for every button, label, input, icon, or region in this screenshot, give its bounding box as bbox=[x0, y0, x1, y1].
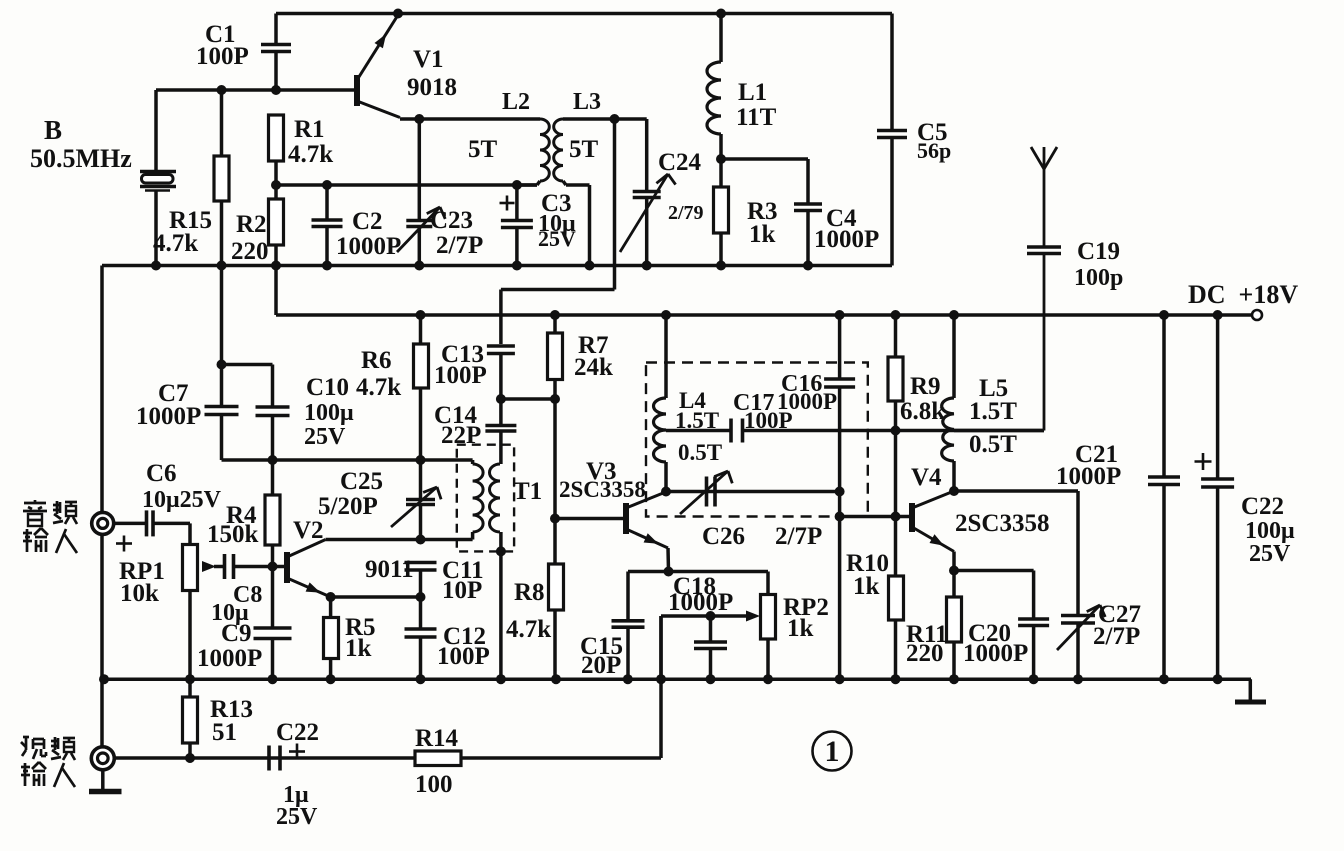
svg-text:2/7P: 2/7P bbox=[1093, 623, 1140, 650]
antenna bbox=[1043, 147, 1046, 247]
wire DC +18V rail bbox=[274, 266, 278, 316]
wire bias node y185 bbox=[276, 183, 537, 187]
svg-text:25V: 25V bbox=[1249, 541, 1291, 567]
wire video signal bbox=[113, 756, 415, 760]
wire V1 emitter bbox=[400, 117, 540, 121]
capacitor C25 bbox=[419, 460, 423, 500]
node V4 collector bbox=[949, 486, 959, 496]
wire emitter bus y571 bbox=[628, 570, 768, 574]
wire emitter to C20 bbox=[954, 569, 1034, 573]
inductor L2 bbox=[540, 119, 549, 181]
svg-text:C10: C10 bbox=[306, 374, 349, 401]
wire wiper to C8 bbox=[214, 565, 225, 569]
transformer T1 box bbox=[457, 445, 514, 552]
svg-text:2SC3358: 2SC3358 bbox=[955, 510, 1049, 537]
svg-text:1000P: 1000P bbox=[668, 589, 733, 616]
connector audio input bbox=[92, 512, 114, 534]
capacitor C5 bbox=[890, 14, 894, 131]
transistor V2 bbox=[284, 552, 290, 583]
transformer T1 primary bbox=[471, 460, 475, 464]
node C18 top bbox=[706, 611, 716, 621]
node top-rail junctions bbox=[393, 9, 403, 19]
svg-text:220: 220 bbox=[231, 238, 269, 265]
svg-text:T1: T1 bbox=[513, 478, 542, 505]
capacitor C18 bbox=[709, 616, 713, 642]
node V3 collector bbox=[661, 487, 671, 497]
capacitor C3 bbox=[515, 185, 519, 221]
wire R3-C4 bbox=[721, 157, 808, 161]
svg-text:R1: R1 bbox=[294, 116, 325, 143]
capacitor C26 bbox=[666, 490, 840, 494]
capacitor C27 bbox=[1061, 614, 1095, 618]
wire ground bus upper bbox=[102, 264, 892, 268]
capacitor C11 bbox=[405, 561, 437, 565]
svg-text:25V: 25V bbox=[304, 424, 346, 450]
ground main bbox=[1249, 679, 1253, 700]
resistor R1 bbox=[269, 115, 284, 161]
resistor R14 bbox=[415, 751, 461, 766]
wire C18 bus y616 bbox=[661, 614, 746, 618]
node L1 bottom bbox=[716, 154, 726, 164]
svg-text:R9: R9 bbox=[910, 373, 941, 400]
node V4 emitter junction bbox=[949, 566, 959, 576]
capacitor C13 bbox=[487, 344, 515, 348]
wire top rail bbox=[276, 12, 892, 16]
capacitor C12 bbox=[419, 597, 423, 629]
svg-text:C26: C26 bbox=[702, 523, 745, 550]
resistor R13 bbox=[188, 679, 192, 697]
svg-text:L2: L2 bbox=[502, 89, 530, 115]
node y185 junctions bbox=[322, 180, 332, 190]
node V3 emitter junction bbox=[664, 567, 674, 577]
svg-text:V1: V1 bbox=[413, 46, 444, 73]
wire supply node y460 bbox=[222, 458, 473, 462]
svg-text:C25: C25 bbox=[340, 468, 383, 495]
svg-text:R8: R8 bbox=[514, 579, 545, 606]
node T1 secondary bottom bbox=[496, 546, 506, 556]
svg-text:10μ25V: 10μ25V bbox=[142, 487, 222, 513]
svg-text:100P: 100P bbox=[196, 43, 249, 70]
wire V3 emitter drop bbox=[666, 548, 670, 572]
svg-text:4.7k: 4.7k bbox=[288, 141, 333, 168]
svg-text:L1: L1 bbox=[738, 79, 767, 106]
svg-text:100: 100 bbox=[415, 771, 453, 798]
svg-text:56p: 56p bbox=[917, 138, 951, 163]
svg-text:2SC3358: 2SC3358 bbox=[559, 477, 646, 502]
capacitor C8 bbox=[223, 554, 227, 579]
inductor L1 bbox=[719, 14, 723, 63]
capacitor C20 bbox=[1018, 617, 1049, 621]
crystal B bbox=[154, 90, 158, 170]
svg-text:B: B bbox=[44, 115, 62, 145]
svg-text:1.5T: 1.5T bbox=[969, 398, 1017, 425]
svg-text:2/7P: 2/7P bbox=[436, 232, 483, 259]
svg-text:4.7k: 4.7k bbox=[153, 230, 198, 257]
svg-text:20P: 20P bbox=[581, 652, 621, 679]
svg-text:1000P: 1000P bbox=[136, 403, 201, 430]
capacitor C17 bbox=[729, 419, 733, 443]
svg-text:220: 220 bbox=[906, 640, 944, 667]
wire V2 collector bbox=[326, 538, 473, 542]
wire V4 base bbox=[840, 515, 912, 519]
transistor V4 bbox=[909, 503, 915, 532]
node lower-bus junctions bbox=[99, 674, 109, 684]
svg-text:1k: 1k bbox=[853, 573, 880, 600]
svg-text:2/7P: 2/7P bbox=[775, 523, 822, 550]
capacitor C1 bbox=[274, 14, 278, 45]
svg-text:1000P: 1000P bbox=[814, 226, 879, 253]
svg-text:C9: C9 bbox=[221, 620, 252, 647]
transistor V1 bbox=[354, 75, 360, 106]
inductor L3 bbox=[554, 119, 563, 181]
capacitor C16 bbox=[838, 315, 842, 379]
node emitter junctions bbox=[414, 114, 424, 124]
svg-text:R2: R2 bbox=[236, 211, 267, 238]
node C16-line junctions bbox=[835, 487, 845, 497]
wire V2 emitter to C11 bbox=[331, 595, 421, 599]
svg-text:V4: V4 bbox=[911, 464, 942, 491]
svg-text:C22: C22 bbox=[276, 719, 319, 746]
resistor R11 bbox=[952, 571, 956, 598]
svg-text:51: 51 bbox=[212, 719, 237, 746]
shield box L4-C26 bbox=[646, 363, 868, 517]
label video input bbox=[23, 736, 29, 739]
svg-text:1k: 1k bbox=[787, 615, 814, 642]
connector video input bbox=[91, 747, 114, 770]
wire ground bus lower bbox=[104, 677, 1251, 681]
capacitor C15 bbox=[626, 572, 630, 621]
svg-text:1000P: 1000P bbox=[963, 640, 1028, 667]
svg-text:1k: 1k bbox=[345, 635, 372, 662]
svg-text:100p: 100p bbox=[1074, 265, 1123, 291]
svg-text:0.5T: 0.5T bbox=[969, 431, 1017, 458]
capacitor C22 filter bbox=[1216, 315, 1220, 479]
node R7 bottom bbox=[550, 394, 560, 404]
capacitor C2 bbox=[325, 185, 329, 220]
wire left ground drop bbox=[100, 266, 104, 514]
node DC-rail junctions bbox=[416, 310, 426, 320]
capacitor C23 bbox=[418, 119, 422, 221]
svg-text:150k: 150k bbox=[207, 521, 259, 548]
svg-text:C23: C23 bbox=[430, 207, 473, 234]
svg-text:C24: C24 bbox=[658, 149, 702, 176]
capacitor C10 bbox=[256, 405, 290, 409]
capacitor C9 bbox=[271, 567, 275, 629]
resistor R9 bbox=[894, 315, 898, 357]
svg-text:DC +18V: DC +18V bbox=[1188, 280, 1298, 309]
capacitor C4 bbox=[806, 159, 810, 204]
transistor V3 bbox=[623, 503, 629, 534]
svg-text:25V: 25V bbox=[538, 226, 576, 251]
svg-text:25V: 25V bbox=[276, 804, 318, 830]
svg-text:9018: 9018 bbox=[407, 74, 457, 101]
wire L4 tap bbox=[666, 429, 731, 433]
svg-text:C19: C19 bbox=[1077, 238, 1120, 265]
svg-text:L3: L3 bbox=[573, 89, 601, 115]
svg-text:1000P: 1000P bbox=[777, 389, 837, 414]
resistor R2 bbox=[269, 199, 284, 245]
wire L3 takeoff jog bbox=[613, 119, 617, 290]
potentiometer RP1 bbox=[188, 523, 192, 544]
resistor R5 bbox=[329, 597, 333, 618]
node C7 top bbox=[217, 360, 227, 370]
wire V4 emitter drop bbox=[952, 552, 956, 571]
label audio input bbox=[24, 502, 46, 505]
wire T1 secondary ground bbox=[499, 551, 503, 679]
svg-text:10P: 10P bbox=[442, 577, 482, 604]
node C13-C14 junction bbox=[496, 394, 506, 404]
svg-text:1: 1 bbox=[825, 735, 840, 768]
capacitor C7 bbox=[220, 365, 224, 407]
potentiometer RP2 bbox=[766, 572, 770, 595]
wire V3 base bbox=[555, 517, 626, 521]
capacitor C19 bbox=[1027, 245, 1061, 249]
wire R7 bottom link bbox=[501, 397, 555, 401]
resistor R6 bbox=[419, 315, 423, 344]
transformer T1 secondary bbox=[499, 431, 503, 464]
node y460 junctions bbox=[268, 455, 278, 465]
resistor R7 bbox=[553, 315, 557, 333]
label circled 1 bbox=[813, 732, 852, 771]
svg-text:100P: 100P bbox=[434, 362, 487, 389]
inductor L5 bbox=[952, 315, 956, 398]
svg-text:100P: 100P bbox=[437, 643, 490, 670]
svg-text:V2: V2 bbox=[293, 517, 324, 544]
ground video bbox=[101, 770, 105, 789]
capacitor C6 bbox=[113, 522, 147, 526]
svg-text:10k: 10k bbox=[120, 580, 159, 607]
svg-text:5T: 5T bbox=[569, 136, 599, 163]
wire V4 collector bbox=[954, 489, 1078, 493]
node collector-wire junction bbox=[416, 535, 426, 545]
wire R7-R8 drop bbox=[553, 399, 557, 564]
node upper-bus junctions bbox=[151, 261, 161, 271]
capacitor C21 bbox=[1162, 315, 1166, 477]
svg-text:4.7k: 4.7k bbox=[506, 616, 551, 643]
svg-text:1k: 1k bbox=[749, 221, 776, 248]
node V2 base junction bbox=[268, 562, 278, 572]
node emitter-wire junctions bbox=[326, 592, 336, 602]
svg-text:C22: C22 bbox=[1241, 493, 1284, 520]
svg-text:0.5T: 0.5T bbox=[678, 440, 722, 465]
wire C7-C10 top link bbox=[222, 363, 273, 367]
resistor R15 bbox=[220, 90, 224, 156]
node tap junctions bbox=[891, 426, 901, 436]
svg-text:C2: C2 bbox=[352, 208, 383, 235]
svg-text:2/79: 2/79 bbox=[668, 202, 704, 224]
node video junctions bbox=[185, 753, 195, 763]
svg-text:50.5MHz: 50.5MHz bbox=[30, 144, 132, 173]
wire below audio connector bbox=[100, 534, 104, 679]
svg-text:6.8k: 6.8k bbox=[900, 398, 945, 425]
node R1-R2 junction bbox=[271, 180, 281, 190]
capacitor C22 video bbox=[267, 746, 271, 771]
svg-text:24k: 24k bbox=[574, 354, 613, 381]
capacitor C24 bbox=[645, 119, 649, 192]
svg-text:4.7k: 4.7k bbox=[356, 374, 401, 401]
wire C7 feed bbox=[220, 266, 224, 365]
node V3 base tee bbox=[550, 514, 560, 524]
svg-text:R6: R6 bbox=[361, 347, 392, 374]
resistor R10 bbox=[894, 517, 898, 577]
resistor R3 bbox=[719, 159, 723, 187]
svg-text:100μ: 100μ bbox=[304, 400, 354, 426]
svg-text:R14: R14 bbox=[415, 725, 459, 752]
resistor R4 bbox=[271, 460, 275, 495]
svg-text:C6: C6 bbox=[146, 460, 177, 487]
svg-text:5/20P: 5/20P bbox=[318, 493, 378, 520]
capacitor C14 bbox=[499, 399, 503, 426]
svg-text:11T: 11T bbox=[736, 104, 777, 131]
svg-text:1000P: 1000P bbox=[1056, 463, 1121, 490]
resistor R8 bbox=[549, 564, 564, 610]
node base junctions bbox=[217, 85, 227, 95]
inductor L4 bbox=[664, 315, 668, 398]
svg-text:1000P: 1000P bbox=[197, 645, 262, 672]
svg-text:1000P: 1000P bbox=[336, 233, 401, 260]
svg-text:5T: 5T bbox=[468, 136, 498, 163]
wire V1 base bbox=[156, 88, 357, 92]
wire L5 tap to antenna bbox=[954, 429, 1044, 433]
